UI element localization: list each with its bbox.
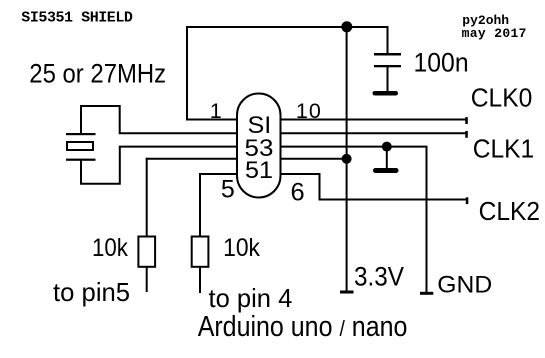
svg-text:CLK0: CLK0: [471, 85, 533, 113]
svg-text:1: 1: [210, 99, 222, 123]
wire: top rail to C1: [387, 26, 389, 54]
pin tick CLK0: [465, 117, 468, 124]
wire: R1 pullup to U1: [146, 158, 239, 160]
wire: U1 to CLK1 output: [278, 132, 467, 134]
resistor R1 10k: [138, 237, 155, 267]
wire: wire D to R1: [146, 158, 148, 241]
wire: U1 GND pin to GND header: [278, 147, 427, 294]
svg-text:51: 51: [245, 157, 273, 184]
svg-text:5: 5: [221, 175, 235, 203]
junction: GND net bypass: [382, 142, 392, 152]
ground at C1: [373, 91, 399, 96]
junction: VDD / 3.3V rail: [342, 154, 352, 164]
svg-text:25 or 27MHz: 25 or 27MHz: [29, 58, 166, 88]
wire: U1 pin 5 to R2: [200, 174, 239, 240]
pin tick GND: [420, 292, 433, 295]
svg-text:100n: 100n: [414, 47, 469, 77]
svg-text:SI5351 SHIELD: SI5351 SHIELD: [21, 9, 133, 26]
svg-text:10: 10: [296, 99, 322, 123]
svg-text:may 2017: may 2017: [462, 26, 527, 41]
capacitor C1: [374, 53, 401, 67]
wire: CLK2 output: [319, 199, 468, 201]
wire: C1 to ground: [387, 67, 389, 92]
IC U1 Si5351: [237, 94, 281, 198]
wire: R2 to pin 4: [199, 267, 201, 293]
wire: R1 to pin5: [146, 267, 148, 292]
svg-text:CLK2: CLK2: [479, 198, 540, 226]
pin tick 3.3V: [340, 291, 354, 294]
svg-text:3.3V: 3.3V: [354, 262, 404, 292]
wire: top rail to U1 pin 1: [187, 27, 388, 121]
wire: pin 1 stub: [186, 119, 239, 121]
junction: top rail / 3.3V: [341, 21, 352, 32]
svg-text:10k: 10k: [92, 234, 128, 262]
wire: crystal top loop: [81, 106, 120, 134]
svg-text:to pin5: to pin5: [53, 277, 130, 307]
svg-text:6: 6: [291, 178, 305, 206]
wire: U1 pin 6 to CLK2 corner: [278, 174, 320, 201]
crystal X1: [66, 133, 96, 161]
wire: crystal XB to U1: [119, 146, 239, 148]
wire: crystal bottom loop: [81, 147, 120, 184]
pin tick CLK1: [465, 131, 468, 138]
pin tick CLK2: [466, 197, 469, 204]
wire: 3.3V rail: [346, 27, 348, 292]
wire: junction to ground symbol: [386, 147, 388, 169]
author label py2ohh may 2017: [462, 13, 527, 41]
wire: U1 to VDD junction: [278, 158, 347, 160]
svg-text:to pin 4: to pin 4: [209, 283, 293, 313]
ground at GND net: [373, 168, 399, 173]
svg-text:GND: GND: [437, 272, 492, 299]
svg-text:10k: 10k: [223, 234, 260, 262]
wire: XA crystal to U1 pin: [119, 132, 239, 134]
wire: U1 pin 10 to CLK0: [278, 119, 466, 121]
svg-text:Arduino uno / nano: Arduino uno / nano: [198, 311, 408, 343]
svg-text:CLK1: CLK1: [473, 136, 535, 164]
resistor R2 10k: [192, 237, 209, 267]
